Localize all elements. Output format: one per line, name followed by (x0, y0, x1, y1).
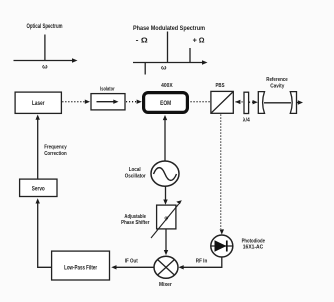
svg-text:Reference: Reference (266, 77, 288, 83)
optical spectrum carrier spike (44, 35, 46, 61)
svg-text:IF Out: IF Out (125, 259, 138, 265)
quarter-wave plate (244, 92, 249, 113)
arrowhead into mixer top (164, 250, 168, 255)
svg-text:EOM: EOM (160, 101, 171, 107)
phase shifter diagonal arrow (151, 204, 179, 238)
svg-text:RF In: RF In (196, 259, 208, 265)
phase spectrum lower sideband (144, 63, 146, 75)
local oscillator (151, 161, 179, 186)
arrowhead into left cavity mirror (253, 100, 258, 104)
svg-text:Isolator: Isolator (100, 86, 115, 92)
wire PBS to quarter-wave plate (dotted beam) (236, 101, 244, 103)
wire local oscillator down to phase shifter (165, 186, 167, 201)
arrowhead inside isolator (113, 100, 118, 104)
phase modulated spectrum axis (133, 62, 204, 64)
svg-text:Servo: Servo (32, 187, 45, 193)
arrowhead into isolator (85, 100, 90, 104)
svg-text:Oscillator: Oscillator (125, 174, 147, 180)
svg-text:Laser: Laser (32, 101, 45, 107)
svg-text:Optical Spectrum: Optical Spectrum (27, 24, 63, 30)
svg-text:ω: ω (42, 63, 48, 70)
arrowhead into phase shifter top (163, 200, 167, 205)
arrowhead exiting right cavity mirror (298, 100, 303, 104)
wire PBS down to photodiode (dotted beam) (220, 115, 222, 230)
arrowhead into EOM left (137, 100, 142, 104)
wire exiting right cavity mirror (297, 102, 299, 104)
mixer (154, 256, 178, 278)
wire photodiode to mixer (RF In) (182, 257, 222, 267)
wire isolator to EOM (dotted beam) (126, 101, 138, 103)
svg-text:ω: ω (161, 65, 167, 72)
svg-text:Phase Shifter: Phase Shifter (121, 220, 150, 226)
wire phase shifter down to mixer (165, 229, 167, 253)
svg-text:Local: Local (129, 167, 141, 173)
servo box (20, 179, 57, 196)
EOM box (144, 93, 188, 113)
phase spectrum carrier spike (167, 32, 169, 63)
isolator box (91, 94, 125, 110)
svg-text:400X: 400X (161, 83, 173, 89)
laser box (15, 92, 61, 113)
left cavity mirror (258, 92, 264, 114)
svg-text:Correction: Correction (44, 151, 67, 157)
wire inside reference cavity (264, 102, 291, 104)
phase spectrum upper sideband (189, 48, 191, 63)
optical spectrum axis (14, 60, 74, 62)
svg-text:Adjustable: Adjustable (124, 214, 146, 220)
svg-text:PBS: PBS (216, 83, 225, 89)
wire low-pass filter to servo (38, 202, 51, 268)
arrowhead into mixer right (RF In) (179, 265, 184, 269)
arrowhead into photodiode top (220, 229, 224, 234)
arrowhead up into laser (frequency correction) (36, 115, 40, 120)
svg-text:Low-Pass Filter: Low-Pass Filter (64, 265, 97, 271)
svg-text:λ/4: λ/4 (243, 118, 250, 124)
svg-text:Cavity: Cavity (270, 83, 285, 89)
wire local oscillator up to EOM (164, 120, 166, 161)
svg-text:Phase Modulated Spectrum: Phase Modulated Spectrum (133, 26, 205, 32)
wire servo to laser (frequency correction) (37, 118, 39, 179)
isolator internal arrow (97, 101, 115, 103)
wire EOM to PBS (dotted beam) (191, 101, 210, 103)
arrowhead pointing left at PBS (return beam) (235, 100, 240, 104)
adjustable phase shifter box (157, 205, 176, 229)
low-pass filter box (52, 251, 110, 280)
arrowhead into low-pass filter (IF Out) (111, 265, 116, 269)
wire laser to isolator (dotted beam) (62, 101, 85, 103)
svg-text:Frequency: Frequency (44, 145, 67, 151)
svg-text:Mixer: Mixer (159, 282, 173, 288)
wire quarter-wave plate to cavity (dotted beam) (249, 101, 253, 103)
arrowhead up into EOM bottom (163, 115, 167, 120)
photodiode (211, 235, 233, 257)
arrowhead up into servo (36, 198, 40, 203)
PBS cube (211, 91, 233, 113)
arrowhead optical spectrum axis (72, 58, 78, 63)
svg-text:+ Ω: + Ω (193, 38, 205, 45)
right cavity mirror (290, 92, 296, 114)
svg-text:16X1-AC: 16X1-AC (243, 245, 263, 251)
wire mixer to low-pass filter (IF Out) (116, 266, 155, 268)
arrowhead phase spectrum axis (202, 60, 208, 65)
svg-text:- Ω: - Ω (136, 38, 148, 45)
